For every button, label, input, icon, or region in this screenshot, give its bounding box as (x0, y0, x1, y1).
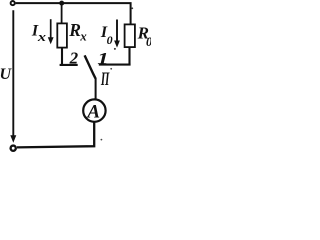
svg-text:U: U (0, 66, 13, 83)
switch lever P (85, 55, 96, 78)
svg-text:x: x (37, 30, 46, 44)
current arrow Ix (50, 19, 52, 38)
svg-text:2: 2 (69, 48, 79, 67)
node junction dot (59, 1, 64, 6)
wire ammeter bottom to bottom rail (17, 122, 94, 148)
ammeter A1 (83, 99, 105, 121)
wire Rx bottom to contact 2 bar (60, 48, 78, 65)
wire source U vertical (12, 10, 14, 135)
svg-text:0: 0 (146, 35, 151, 49)
resistor R0 (125, 24, 135, 47)
svg-text:П: П (100, 69, 110, 90)
scan speck (114, 48, 116, 50)
wire top horizontal with corner down to R0 (16, 3, 131, 24)
terminal (bottom-left) (11, 146, 16, 151)
wire junction to Rx top (61, 4, 63, 24)
svg-text:0: 0 (107, 33, 113, 47)
scan speck (101, 139, 103, 141)
svg-text:R: R (68, 20, 81, 40)
terminal (top-left) (11, 1, 15, 5)
svg-text:A: A (86, 101, 100, 122)
arrow head U down (10, 135, 16, 142)
wire R0 bottom to contact 1 bar (99, 48, 131, 65)
wire lever to ammeter (95, 78, 97, 100)
current arrow I0 (116, 20, 118, 42)
scan speck (110, 68, 112, 70)
svg-text:x: x (79, 29, 87, 44)
resistor Rx (57, 23, 67, 47)
scan speck (131, 7, 133, 9)
